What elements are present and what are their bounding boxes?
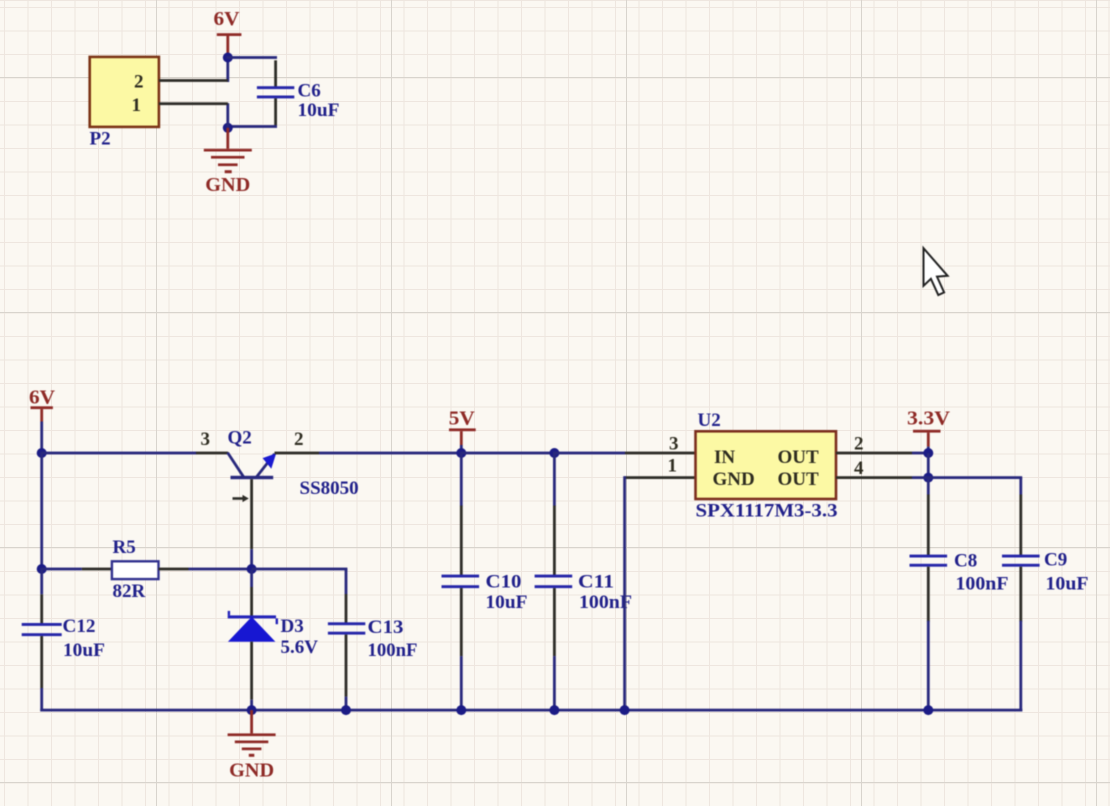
capacitor C13 xyxy=(328,594,365,697)
junction dot base node xyxy=(247,564,257,574)
svg-text:3: 3 xyxy=(201,429,211,450)
pin 2 of P2 xyxy=(159,79,228,82)
wire C8 upper lead xyxy=(927,478,930,495)
wire C13 to bottom rail xyxy=(345,697,348,712)
wire C10 to bottom rail xyxy=(460,656,463,711)
ground symbol (bottom) xyxy=(228,710,276,757)
svg-text:GND: GND xyxy=(229,759,274,781)
junction dot top xyxy=(223,53,233,63)
wire base node to C13 xyxy=(252,568,348,571)
pin cathode D3 xyxy=(250,587,253,617)
capacitor C12 xyxy=(22,594,62,688)
svg-text:OUT: OUT xyxy=(778,469,820,490)
svg-text:SS8050: SS8050 xyxy=(300,478,359,499)
svg-text:GND: GND xyxy=(713,469,755,490)
svg-text:10uF: 10uF xyxy=(63,640,105,661)
svg-text:C8: C8 xyxy=(954,550,977,571)
svg-text:IN: IN xyxy=(714,447,735,468)
wire C9 to bottom rail xyxy=(1019,621,1022,712)
pin anode D3 xyxy=(250,642,253,700)
pin 2 of R5 xyxy=(159,568,189,571)
wire bottom rail xyxy=(40,709,1022,712)
wire C6 bottom to dot xyxy=(226,125,277,128)
svg-text:R5: R5 xyxy=(113,537,136,558)
capacitor C9 xyxy=(1002,495,1040,622)
junction dot pin4 node xyxy=(923,473,933,483)
svg-text:C11: C11 xyxy=(578,572,614,593)
svg-text:6V: 6V xyxy=(29,386,56,408)
svg-text:5.6V: 5.6V xyxy=(281,637,319,658)
svg-text:10uF: 10uF xyxy=(486,592,528,613)
pin base of Q2 xyxy=(250,479,253,549)
wire C9 upper lead xyxy=(1019,478,1022,495)
wire C11 upper lead xyxy=(553,453,556,506)
wire D3 cathode lead xyxy=(250,570,253,587)
svg-text:Q2: Q2 xyxy=(228,428,252,449)
pin 1 of R5 xyxy=(82,568,112,571)
junction dot gnd node xyxy=(247,705,257,715)
svg-text:3.3V: 3.3V xyxy=(907,407,951,429)
capacitor C11 xyxy=(535,506,573,656)
svg-text:P2: P2 xyxy=(90,128,111,149)
wire C11 to bottom rail xyxy=(553,656,556,711)
transistor Q2 xyxy=(228,453,277,480)
wire C11 node to U2 pin3 xyxy=(553,452,625,455)
wire C10 upper lead xyxy=(460,453,463,506)
svg-text:OUT: OUT xyxy=(778,447,820,468)
svg-text:2: 2 xyxy=(854,433,864,454)
connector P2 xyxy=(90,57,159,127)
mouse cursor xyxy=(924,248,948,295)
ground symbol (top) xyxy=(204,128,252,173)
junction dot C10 rail xyxy=(456,705,466,715)
svg-text:SPX1117M3-3.3: SPX1117M3-3.3 xyxy=(696,501,838,522)
wire 6V stem to pin2 xyxy=(226,58,229,83)
svg-text:2: 2 xyxy=(294,429,304,450)
svg-text:C12: C12 xyxy=(63,616,96,637)
junction dot pin1 rail xyxy=(620,705,630,715)
svg-text:C13: C13 xyxy=(368,617,404,638)
wire 3.3V node down xyxy=(927,453,930,479)
svg-text:C6: C6 xyxy=(298,81,321,102)
svg-text:1: 1 xyxy=(668,455,678,476)
capacitor C8 xyxy=(910,495,948,622)
capacitor C10 xyxy=(442,506,480,656)
wire pin4 to C9 corner xyxy=(912,476,1022,479)
wire dot to C6 top xyxy=(226,56,277,59)
svg-text:4: 4 xyxy=(854,458,864,479)
junction dot bottom xyxy=(223,123,233,133)
resistor R5 xyxy=(112,561,159,579)
svg-text:GND: GND xyxy=(205,174,250,196)
svg-text:100nF: 100nF xyxy=(956,573,1009,594)
svg-text:5V: 5V xyxy=(449,407,476,429)
wire R5 to base node xyxy=(189,568,252,571)
junction dot C11 rail xyxy=(549,705,559,715)
pin 1 of U2 xyxy=(625,476,696,479)
power port 6V (top) xyxy=(214,8,242,58)
wire pin2 to 3.3V node xyxy=(912,452,930,455)
svg-text:6V: 6V xyxy=(214,8,241,30)
svg-text:100nF: 100nF xyxy=(368,640,418,661)
diode D3 zener xyxy=(228,611,278,642)
wire C12 to bottom rail xyxy=(40,688,43,711)
wire C8 to bottom rail xyxy=(927,621,930,712)
wire pin1 down to rail xyxy=(623,476,626,711)
wire pin1 vertical xyxy=(226,103,229,128)
wire 3.3V stem xyxy=(927,447,930,453)
svg-text:3: 3 xyxy=(669,434,679,455)
junction dot 5V xyxy=(456,448,466,458)
power port 5V xyxy=(449,407,476,445)
junction dot mid-left xyxy=(37,564,47,574)
wire 6V stem to rail xyxy=(40,422,43,455)
capacitor C6 xyxy=(257,60,294,126)
pin 4 of U2 xyxy=(836,476,912,479)
svg-text:10uF: 10uF xyxy=(1046,573,1089,594)
svg-text:C10: C10 xyxy=(486,572,522,593)
wire Q2 emitter to 5V xyxy=(319,452,462,455)
svg-text:1: 1 xyxy=(132,95,142,116)
wire mid rail to R5 xyxy=(40,568,82,571)
power port 6V (bottom) xyxy=(29,386,56,421)
svg-text:10uF: 10uF xyxy=(298,100,340,121)
wire top rail left xyxy=(40,452,196,455)
marker arrow at base xyxy=(233,495,249,502)
junction dot C13 rail xyxy=(341,705,351,715)
svg-text:C9: C9 xyxy=(1044,549,1067,570)
junction dot 6V rail xyxy=(37,448,47,458)
svg-text:2: 2 xyxy=(134,72,144,93)
wire C13 upper lead xyxy=(345,569,348,594)
pin 3 of U2 xyxy=(625,452,696,455)
wire 5V stem xyxy=(460,445,463,453)
junction dot C8 rail xyxy=(923,705,933,715)
pin 2 of Q2 xyxy=(275,452,320,455)
power port 3.3V xyxy=(907,407,951,446)
wire left rail vertical xyxy=(40,453,43,569)
wire C12 upper lead xyxy=(40,569,43,594)
pin 2 of U2 xyxy=(836,452,912,455)
svg-text:82R: 82R xyxy=(113,581,146,602)
svg-text:U2: U2 xyxy=(698,410,721,431)
pin 1 of P2 xyxy=(159,102,228,105)
regulator U2 xyxy=(696,431,837,499)
svg-text:D3: D3 xyxy=(281,616,304,637)
wire 5V to C11 node xyxy=(460,452,556,455)
wire base to mid rail xyxy=(250,549,253,570)
wire D3 to bottom rail xyxy=(250,700,253,711)
junction dot C11 node xyxy=(549,448,559,458)
junction dot 3.3V xyxy=(923,448,933,458)
pin 3 of Q2 xyxy=(196,452,228,455)
